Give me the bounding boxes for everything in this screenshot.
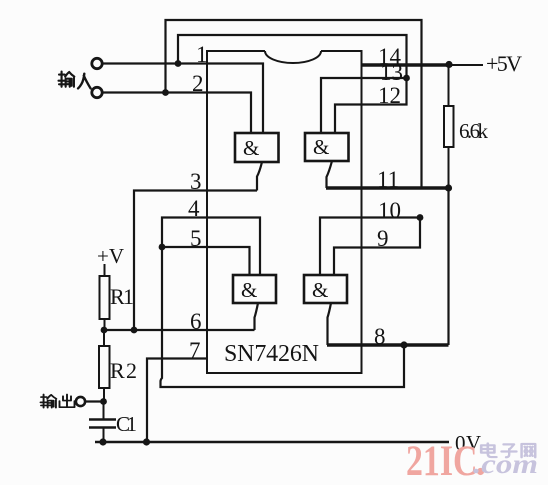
- gate U1b output wire to pin 11 rail: [327, 161, 333, 188]
- svg-text:4: 4: [188, 196, 200, 221]
- junction J6: [417, 214, 424, 221]
- junction J13: [100, 398, 107, 405]
- junction J9: [400, 341, 407, 348]
- junction J7: [131, 327, 138, 334]
- junction J5: [445, 184, 452, 191]
- svg-text:+5V: +5V: [486, 51, 522, 76]
- svg-text:&: &: [243, 136, 259, 160]
- junction J1: [175, 60, 182, 67]
- svg-text:&: &: [312, 278, 328, 302]
- junction J8: [159, 244, 166, 251]
- wire W1 top outer: input B up over to pin 11 rail: [166, 20, 422, 188]
- NAND gate U1a: [235, 133, 279, 162]
- wire pin 10 node down to pin 9 and gate U1d input B: [334, 218, 420, 276]
- svg-text:SN7426N: SN7426N: [224, 341, 319, 367]
- wire pins 4+5 tie down to pin 8 feedback: [161, 218, 405, 388]
- resistor R2: [99, 330, 110, 402]
- svg-text:5: 5: [190, 226, 202, 251]
- junction J2: [162, 89, 169, 96]
- svg-text:7: 7: [189, 338, 201, 363]
- wire pin 5: [162, 247, 250, 275]
- resistor 6.6k: [444, 67, 454, 186]
- NAND gate U1d: [304, 275, 347, 303]
- svg-text:+V: +V: [97, 244, 124, 268]
- gate U1a output wire to pin 3: [257, 162, 262, 191]
- svg-text:&: &: [313, 135, 329, 159]
- svg-text:14: 14: [378, 44, 402, 69]
- wire pin 13 to gate U1b input A: [321, 78, 407, 133]
- IC U1 SN7426N body with notch: [207, 51, 362, 373]
- svg-text:2: 2: [192, 71, 204, 96]
- wire pin 3 tie to pin 6 node: [134, 191, 257, 331]
- junction J4: [445, 61, 452, 68]
- label 输出 (output): [41, 394, 75, 407]
- NAND gate U1b: [305, 133, 349, 161]
- wire input B to pin 2 and gate U1a input A: [102, 93, 251, 134]
- svg-text:6: 6: [190, 309, 202, 334]
- junction J10: [101, 327, 108, 334]
- gate U1c output wire to pin 6: [255, 303, 259, 330]
- input terminal lower: [92, 87, 102, 97]
- wire pin 10 tie to gate U1d input A: [320, 218, 420, 276]
- wire W2 top inner: input A up over to pin 13 and pin 12, down to gate U1b input B: [178, 35, 407, 133]
- 0V rail: [95, 441, 449, 443]
- capacitor C1: [89, 402, 116, 443]
- svg-text:21IC: 21IC: [406, 438, 478, 485]
- junction J12: [99, 438, 106, 445]
- input terminal upper: [92, 58, 102, 68]
- svg-text:11: 11: [377, 167, 399, 192]
- wire pin 7 to ground: [147, 359, 207, 443]
- wire pin 6 to R1/R2 node: [104, 329, 255, 331]
- svg-text:9: 9: [377, 226, 389, 251]
- svg-text:R2: R2: [110, 358, 137, 383]
- watermark 电子网: [481, 443, 535, 457]
- svg-text:3: 3: [190, 169, 202, 194]
- svg-text:.com: .com: [473, 449, 538, 479]
- wire pin 8 (bold): [327, 343, 449, 347]
- label 输入 (input): [59, 72, 91, 89]
- wire 6.6k bottom to pin 8: [447, 188, 449, 345]
- wire input A to pin 1 and gate U1a input B: [102, 64, 263, 134]
- svg-text:6.6k: 6.6k: [459, 119, 489, 143]
- +5V lead wire: [452, 64, 483, 66]
- wire pin 11 (bold): [326, 186, 449, 190]
- watermark 21IC: [406, 438, 484, 485]
- output terminal: [76, 397, 104, 406]
- resistor R1: [100, 264, 110, 330]
- svg-text:12: 12: [378, 83, 401, 108]
- svg-text:8: 8: [374, 324, 386, 349]
- svg-text:R1: R1: [110, 284, 134, 309]
- svg-text:10: 10: [378, 198, 401, 223]
- svg-text:&: &: [241, 278, 257, 302]
- svg-text:C1: C1: [116, 412, 137, 436]
- NAND gate U1c: [233, 275, 276, 303]
- svg-text:1: 1: [196, 42, 208, 67]
- junction J3: [403, 75, 410, 82]
- junction J11: [143, 438, 150, 445]
- +5V rail from pin 14 (bold): [362, 63, 453, 67]
- gate U1d output wire to pin 8: [328, 303, 332, 345]
